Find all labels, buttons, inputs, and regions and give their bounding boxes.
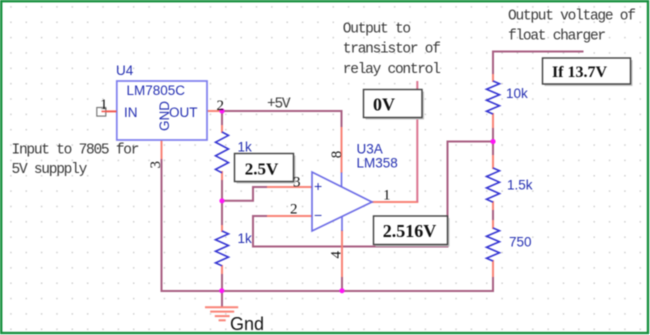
svg-text:Output to: Output to bbox=[343, 22, 411, 38]
svg-text:LM358: LM358 bbox=[357, 156, 398, 171]
svg-text:OUT: OUT bbox=[169, 105, 198, 120]
svg-text:float charger: float charger bbox=[508, 29, 605, 45]
svg-text:1: 1 bbox=[100, 97, 108, 113]
svg-text:1k: 1k bbox=[238, 231, 253, 246]
svg-text:+5V: +5V bbox=[267, 97, 291, 113]
svg-text:3: 3 bbox=[293, 175, 301, 191]
svg-text:Input to 7805 for: Input to 7805 for bbox=[12, 143, 139, 159]
svg-text:750: 750 bbox=[509, 235, 532, 250]
svg-text:IN: IN bbox=[124, 105, 138, 120]
svg-text:8: 8 bbox=[329, 151, 345, 159]
svg-text:If 13.7V: If 13.7V bbox=[552, 64, 608, 81]
svg-text:0V: 0V bbox=[373, 95, 395, 115]
svg-text:Gnd: Gnd bbox=[230, 314, 264, 334]
svg-text:U3A: U3A bbox=[357, 142, 383, 157]
svg-text:1: 1 bbox=[383, 188, 391, 204]
svg-text:2: 2 bbox=[217, 98, 225, 114]
svg-text:2.516V: 2.516V bbox=[383, 221, 437, 241]
svg-text:5V suppply: 5V suppply bbox=[12, 162, 88, 178]
svg-text:1k: 1k bbox=[238, 140, 253, 155]
svg-text:2.5V: 2.5V bbox=[245, 160, 279, 179]
svg-text:1.5k: 1.5k bbox=[507, 178, 533, 193]
svg-text:2: 2 bbox=[290, 202, 298, 218]
svg-text:GND: GND bbox=[157, 101, 172, 131]
svg-text:LM7805C: LM7805C bbox=[127, 83, 186, 98]
svg-text:transistor of: transistor of bbox=[343, 42, 440, 58]
svg-text:−: − bbox=[314, 207, 322, 223]
svg-text:3: 3 bbox=[148, 161, 164, 169]
svg-text:4: 4 bbox=[329, 250, 345, 258]
svg-text:Output voltage of: Output voltage of bbox=[508, 9, 635, 25]
svg-text:relay control: relay control bbox=[343, 62, 440, 78]
svg-text:+: + bbox=[314, 178, 322, 194]
svg-text:10k: 10k bbox=[506, 86, 528, 101]
svg-text:U4: U4 bbox=[116, 63, 134, 78]
